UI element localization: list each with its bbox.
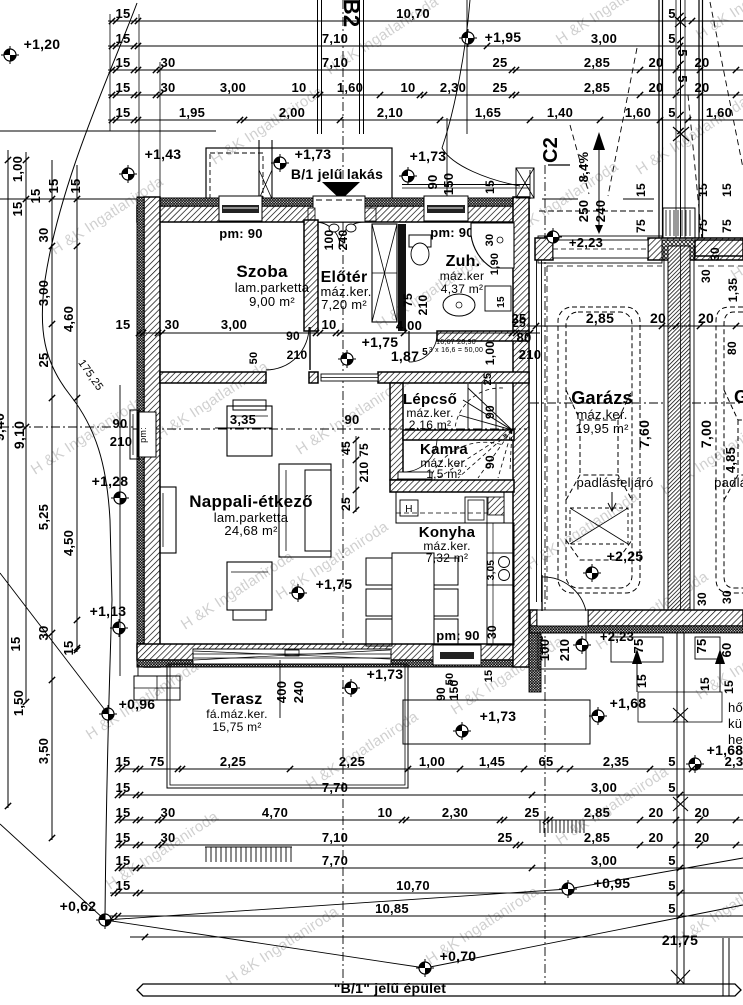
svg-text:1,95: 1,95 <box>179 105 205 120</box>
terrain line T3 <box>105 858 743 920</box>
axis line at +1,95 <box>466 0 468 134</box>
elevation +1,73 porch right <box>399 167 417 185</box>
svg-text:15: 15 <box>116 780 131 795</box>
svg-text:210: 210 <box>287 348 308 362</box>
elevation +2,25 <box>583 564 601 582</box>
bottom dim row 2 <box>118 794 743 796</box>
svg-text:400: 400 <box>274 681 289 703</box>
svg-text:1,5 m²: 1,5 m² <box>426 467 462 481</box>
svg-text:7,70: 7,70 <box>322 780 348 795</box>
svg-text:20: 20 <box>649 805 664 820</box>
elevation +0,96 <box>99 705 117 723</box>
svg-text:7,10: 7,10 <box>322 830 348 845</box>
svg-text:10,70: 10,70 <box>396 6 430 21</box>
dining chairs right <box>434 558 458 585</box>
svg-text:1,60: 1,60 <box>706 105 732 120</box>
kitchen counter top <box>396 492 504 523</box>
rear landing box <box>538 633 586 669</box>
svg-text:15: 15 <box>496 296 507 308</box>
bottom dim row 5 <box>118 867 743 869</box>
svg-text:pm: 90: pm: 90 <box>219 226 262 241</box>
stair treads <box>467 384 469 430</box>
garage rear door swing <box>542 577 586 611</box>
svg-text:1,90: 1,90 <box>489 253 501 275</box>
svg-text:25: 25 <box>482 373 494 386</box>
svg-text:+2,23: +2,23 <box>600 629 634 644</box>
pillar crosshatch <box>662 240 695 260</box>
svg-text:5: 5 <box>668 901 675 916</box>
svg-text:3,05: 3,05 <box>486 560 497 581</box>
svg-text:15: 15 <box>698 677 712 691</box>
svg-text:+2,23: +2,23 <box>569 235 603 250</box>
front line garage court <box>542 198 578 200</box>
svg-text:80: 80 <box>725 341 739 355</box>
svg-text:15: 15 <box>10 202 25 217</box>
car 1 <box>558 307 640 593</box>
svg-text:2,25: 2,25 <box>220 754 246 769</box>
elevation +1,75 hall <box>338 350 356 368</box>
svg-text:+1,73: +1,73 <box>410 148 447 164</box>
svg-text:5: 5 <box>668 105 675 120</box>
terrace outline <box>167 664 408 788</box>
svg-text:30: 30 <box>720 590 734 604</box>
svg-text:90: 90 <box>425 175 440 190</box>
svg-text:10: 10 <box>322 317 337 332</box>
svg-text:15: 15 <box>116 754 131 769</box>
svg-text:240: 240 <box>336 230 350 251</box>
svg-text:3,00: 3,00 <box>221 317 247 332</box>
hob H <box>400 500 418 516</box>
garage wall top <box>535 238 553 260</box>
svg-text:2,85: 2,85 <box>584 80 610 95</box>
terrain line T4 <box>105 905 743 968</box>
elevation +2,23 apron <box>544 228 562 246</box>
svg-text:65: 65 <box>539 754 554 769</box>
svg-text:2,25: 2,25 <box>339 754 365 769</box>
elevation +1,20 <box>1 46 19 64</box>
kitchen fridge hatch <box>488 497 504 515</box>
outer wall bottom brick <box>137 644 529 660</box>
svg-text:2,85: 2,85 <box>584 805 610 820</box>
wall stub right of szoba door <box>309 372 318 383</box>
svg-text:5,25: 5,25 <box>36 504 51 530</box>
svg-text:2,85: 2,85 <box>584 830 610 845</box>
elevation +1,75 living <box>289 584 307 602</box>
svg-text:75: 75 <box>150 754 165 769</box>
outer wall top brick <box>137 206 529 222</box>
svg-text:15: 15 <box>635 674 649 688</box>
wall eloter/zuh <box>398 224 406 331</box>
wall kamra/stair <box>403 430 514 440</box>
top dimension row 2 <box>108 45 743 47</box>
svg-text:16,67 28,90: 16,67 28,90 <box>436 339 476 346</box>
dash-dot axis horizontal 9,40 <box>0 426 133 428</box>
svg-text:5: 5 <box>668 6 675 21</box>
axis B2 verticals <box>317 0 319 134</box>
svg-text:4,70: 4,70 <box>262 805 288 820</box>
top dimension row 3 <box>108 69 743 71</box>
svg-text:pm: 90: pm: 90 <box>430 225 473 240</box>
svg-text:80: 80 <box>517 330 532 345</box>
washbasin <box>443 294 475 316</box>
svg-text:15: 15 <box>68 179 83 194</box>
arrows below garage <box>632 649 642 664</box>
bottom dim row 6 <box>110 892 743 894</box>
svg-text:75: 75 <box>720 219 734 233</box>
svg-text:150: 150 <box>447 680 461 701</box>
svg-text:5: 5 <box>668 780 675 795</box>
site boundary curve <box>42 3 137 600</box>
svg-text:90: 90 <box>483 405 497 419</box>
kamra door sill <box>398 472 432 479</box>
svg-text:20: 20 <box>649 80 664 95</box>
outside strip lines <box>119 385 121 676</box>
driveway arrow <box>593 132 605 150</box>
neighbor wall bar bottom <box>137 984 741 996</box>
svg-text:15: 15 <box>116 317 131 332</box>
svg-text:25: 25 <box>512 311 527 326</box>
porch post band <box>258 140 260 199</box>
wardrobe eloter <box>372 224 397 322</box>
svg-text:10: 10 <box>401 80 416 95</box>
entrance arrow <box>322 182 360 200</box>
svg-text:15: 15 <box>28 189 43 204</box>
wc fixture <box>409 235 431 247</box>
svg-text:2,10: 2,10 <box>377 105 403 120</box>
garage roof overhang dashed <box>547 265 662 267</box>
svg-text:1,35: 1,35 <box>726 278 740 302</box>
svg-text:3,50: 3,50 <box>36 738 51 764</box>
svg-text:15: 15 <box>483 670 495 683</box>
svg-text:15: 15 <box>116 878 131 893</box>
comb 2 <box>539 820 541 833</box>
svg-text:+1,20: +1,20 <box>24 36 61 52</box>
svg-text:4,60: 4,60 <box>61 306 76 332</box>
hall south wall <box>378 372 529 383</box>
svg-text:30: 30 <box>485 625 499 639</box>
party wall upper double lines <box>658 0 660 244</box>
szoba door leaf <box>309 327 311 370</box>
left door sill <box>130 410 139 459</box>
svg-text:4,50: 4,50 <box>61 530 76 556</box>
svg-text:7,20 m²: 7,20 m² <box>321 297 367 312</box>
stair walk line <box>455 388 503 428</box>
svg-text:2,35: 2,35 <box>603 754 629 769</box>
party wall below garage <box>676 633 678 984</box>
tv cabinet <box>160 487 176 553</box>
svg-text:210: 210 <box>357 462 371 483</box>
armchair bottom <box>227 562 272 610</box>
svg-text:"B/1" jelű épület: "B/1" jelű épület <box>334 980 447 996</box>
svg-text:75: 75 <box>631 639 646 654</box>
upper-left boundary line <box>0 130 216 132</box>
garage wall bottom brick <box>588 610 743 626</box>
svg-text:15: 15 <box>46 179 61 194</box>
svg-text:5: 5 <box>668 853 675 868</box>
svg-text:15: 15 <box>116 853 131 868</box>
svg-text:+0,96: +0,96 <box>119 696 156 712</box>
svg-text:30: 30 <box>161 830 176 845</box>
svg-text:100: 100 <box>322 230 336 251</box>
svg-text:240: 240 <box>291 681 306 703</box>
svg-text:máz.ker.: máz.ker. <box>576 407 627 422</box>
garage west edge lines <box>536 258 538 602</box>
svg-text:15: 15 <box>634 183 648 197</box>
svg-text:2,30: 2,30 <box>442 805 468 820</box>
svg-text:3,35: 3,35 <box>230 412 256 427</box>
svg-text:24,68 m²: 24,68 m² <box>224 523 278 538</box>
elevation +1,43 <box>119 165 137 183</box>
svg-text:1,40: 1,40 <box>547 105 573 120</box>
garden steps comb <box>205 846 292 848</box>
svg-text:25: 25 <box>36 353 51 368</box>
svg-text:90: 90 <box>483 455 497 469</box>
right garage splay dashed <box>688 95 702 240</box>
svg-text:15: 15 <box>116 830 131 845</box>
svg-text:1,45: 1,45 <box>479 754 505 769</box>
svg-text:3,00: 3,00 <box>591 31 617 46</box>
svg-text:5: 5 <box>675 49 690 56</box>
top dimension row 1 <box>108 20 743 22</box>
svg-text:10: 10 <box>378 805 393 820</box>
svg-text:kü: kü <box>728 716 742 731</box>
svg-text:1,65: 1,65 <box>475 105 501 120</box>
boundary to +0,62 <box>105 600 112 920</box>
elevation +1,73 porch left <box>271 154 289 172</box>
party wall dim line <box>680 246 682 626</box>
terrain line T2 <box>0 824 105 920</box>
svg-text:150: 150 <box>441 173 456 195</box>
stair fan lower dashed <box>438 430 512 478</box>
svg-text:20: 20 <box>649 55 664 70</box>
svg-text:250: 250 <box>576 200 591 222</box>
top dimension row 4 <box>108 94 743 96</box>
bottom dim row 8 <box>130 936 743 938</box>
outer wall left insulation <box>137 197 144 667</box>
svg-text:90: 90 <box>345 412 360 427</box>
svg-text:4,00: 4,00 <box>396 318 422 333</box>
wall kamra south / konyha north <box>390 480 514 492</box>
svg-text:45: 45 <box>339 441 353 455</box>
svg-text:Terasz: Terasz <box>211 691 262 708</box>
svg-text:+1,68: +1,68 <box>610 695 647 711</box>
svg-text:7,10: 7,10 <box>322 31 348 46</box>
svg-text:75: 75 <box>696 219 710 233</box>
svg-text:75: 75 <box>694 639 709 654</box>
wall stair west <box>390 383 403 480</box>
svg-text:100: 100 <box>537 639 552 661</box>
svg-text:21,75: 21,75 <box>662 932 698 948</box>
garage right wall piece <box>695 240 743 256</box>
garage door opening top <box>553 240 648 258</box>
svg-text:1,00: 1,00 <box>10 156 25 182</box>
left dimension vertical lines <box>7 150 9 808</box>
outer wall right brick <box>513 197 529 667</box>
szoba door swing <box>266 327 309 370</box>
svg-text:G: G <box>734 387 743 407</box>
svg-text:90: 90 <box>434 687 448 701</box>
interior wall szoba/eloter <box>304 220 318 331</box>
axis line B2 dash-dot <box>342 0 344 988</box>
elevation +0,70 <box>416 959 434 977</box>
dash-dot axis horizontal living <box>133 428 527 430</box>
entrance door top wall <box>313 196 365 222</box>
svg-text:+1,28: +1,28 <box>92 473 129 489</box>
court dim line vertical <box>446 118 448 214</box>
svg-text:2,3: 2,3 <box>725 754 743 769</box>
svg-text:2,00: 2,00 <box>279 105 305 120</box>
svg-text:7,10: 7,10 <box>322 55 348 70</box>
armchair top <box>227 406 272 456</box>
bottom dim row 4 <box>118 844 743 846</box>
garage dim row 2,85/20/20 <box>527 325 743 327</box>
svg-text:15: 15 <box>483 180 497 194</box>
bottom dim row 3 <box>118 819 743 821</box>
svg-text:210: 210 <box>110 434 132 449</box>
left chain ticks <box>5 157 11 163</box>
horizontal extension line upper left <box>0 198 138 200</box>
top dimension row 5 <box>108 119 743 121</box>
porch outline <box>206 148 392 199</box>
svg-text:7,70: 7,70 <box>322 853 348 868</box>
svg-text:25: 25 <box>525 805 540 820</box>
top chain verticals <box>109 14 111 131</box>
sliding door diagonals <box>194 650 390 660</box>
porch dashed part <box>210 153 263 199</box>
wall below zuh <box>437 331 529 341</box>
outer wall top insulation <box>137 198 529 206</box>
kitchen counter right <box>487 523 514 645</box>
elevation +1,95 <box>459 29 477 47</box>
svg-text:1,60: 1,60 <box>625 105 651 120</box>
svg-text:20: 20 <box>698 310 714 326</box>
svg-text:25: 25 <box>493 80 508 95</box>
x-brace post <box>516 168 534 198</box>
elevation +0,95 <box>559 880 577 898</box>
svg-text:7,00: 7,00 <box>698 420 714 448</box>
kitchen window bottom wall <box>433 645 481 665</box>
dining chairs left <box>366 558 392 585</box>
elevation +1,73 terrace <box>342 679 360 697</box>
svg-text:+1,95: +1,95 <box>485 29 522 45</box>
svg-text:9,00 m²: 9,00 m² <box>249 294 295 309</box>
svg-text:5: 5 <box>668 31 675 46</box>
svg-text:2,30: 2,30 <box>440 80 466 95</box>
garage bottom insulation band <box>530 626 743 633</box>
driveway splay dashed <box>570 125 589 194</box>
svg-text:15: 15 <box>116 805 131 820</box>
svg-text:B/1 jelű lakás: B/1 jelű lakás <box>291 166 383 182</box>
strip between house and garage <box>529 630 541 692</box>
outer wall bottom insulation <box>137 660 529 667</box>
kamra door swing <box>403 440 437 472</box>
garage axis dash-dot <box>530 402 666 404</box>
svg-text:+1,73: +1,73 <box>367 666 404 682</box>
svg-text:H: H <box>405 504 412 515</box>
outside steps box <box>134 676 180 700</box>
wall below szoba <box>160 372 266 383</box>
apron slab <box>538 236 662 263</box>
svg-text:1,87: 1,87 <box>391 348 419 364</box>
svg-text:30: 30 <box>484 234 496 247</box>
left wall door opening <box>138 412 156 457</box>
window szoba top <box>219 196 262 221</box>
hall dim row 4,00 <box>137 332 540 334</box>
svg-text:19,95 m²: 19,95 m² <box>575 421 629 436</box>
svg-text:Zuh.: Zuh. <box>446 253 481 270</box>
svg-text:+0,95: +0,95 <box>594 875 631 891</box>
terrain line T1 <box>0 573 108 714</box>
elevation +1,13 <box>110 619 128 637</box>
svg-text:3,00: 3,00 <box>36 280 51 306</box>
elevation +0,62 <box>96 911 114 929</box>
svg-text:15,75 m²: 15,75 m² <box>212 720 261 734</box>
svg-text:3,00: 3,00 <box>220 80 246 95</box>
svg-text:25: 25 <box>498 830 513 845</box>
svg-text:pm:: pm: <box>138 427 148 443</box>
car 2 clipped <box>716 307 743 593</box>
svg-text:210: 210 <box>416 295 430 316</box>
svg-text:240: 240 <box>593 200 608 222</box>
svg-text:pm: 90: pm: 90 <box>436 628 479 643</box>
sliding door bottom wall <box>193 649 391 664</box>
svg-text:máz.ker: máz.ker <box>440 269 484 283</box>
rear sill boxes <box>611 637 663 662</box>
court north edge <box>402 184 530 186</box>
svg-text:75: 75 <box>634 219 648 233</box>
svg-text:+0,70: +0,70 <box>440 948 477 964</box>
svg-text:15: 15 <box>8 637 23 652</box>
front boundary curve right <box>442 0 520 186</box>
svg-text:50: 50 <box>248 352 260 365</box>
svg-text:30: 30 <box>36 228 51 243</box>
zuh door swing <box>409 334 437 362</box>
svg-text:2,85: 2,85 <box>584 55 610 70</box>
svg-text:hő: hő <box>728 700 743 715</box>
svg-text:30: 30 <box>161 805 176 820</box>
pillar box <box>663 208 695 238</box>
bottom dim row 7 <box>110 915 743 917</box>
svg-text:5: 5 <box>668 878 675 893</box>
zuh door leaf <box>408 331 410 362</box>
svg-text:10: 10 <box>292 80 307 95</box>
svg-text:30: 30 <box>708 247 722 261</box>
svg-text:padlásfeljáró: padlásfeljáró <box>577 475 654 490</box>
party wall garage hatched <box>668 246 690 626</box>
svg-text:25: 25 <box>339 497 353 511</box>
svg-text:15: 15 <box>61 641 76 656</box>
svg-text:75: 75 <box>357 443 371 457</box>
svg-text:Garázs: Garázs <box>571 388 633 408</box>
vertical dim column living <box>355 436 357 512</box>
C2 axis dash-dot <box>544 165 546 996</box>
bottom dim row 1 <box>118 768 743 770</box>
kitchen cooktop <box>487 553 514 585</box>
svg-text:3,00: 3,00 <box>591 853 617 868</box>
svg-text:1,00: 1,00 <box>419 754 445 769</box>
svg-text:padlásf: padlásf <box>714 475 743 490</box>
svg-text:2,16 m²: 2,16 m² <box>409 418 451 432</box>
elevation +1,73 platform <box>453 722 471 740</box>
svg-text:3 x 16,6 = 50,00: 3 x 16,6 = 50,00 <box>429 347 483 354</box>
svg-text:fá.máz.ker.: fá.máz.ker. <box>206 707 267 721</box>
svg-text:1,00: 1,00 <box>483 341 497 365</box>
svg-text:+1,73: +1,73 <box>295 146 332 162</box>
svg-text:lam.parketta: lam.parketta <box>235 280 310 295</box>
sofa <box>279 464 331 557</box>
elevation +1,28 <box>111 489 129 507</box>
svg-text:3,00: 3,00 <box>591 780 617 795</box>
